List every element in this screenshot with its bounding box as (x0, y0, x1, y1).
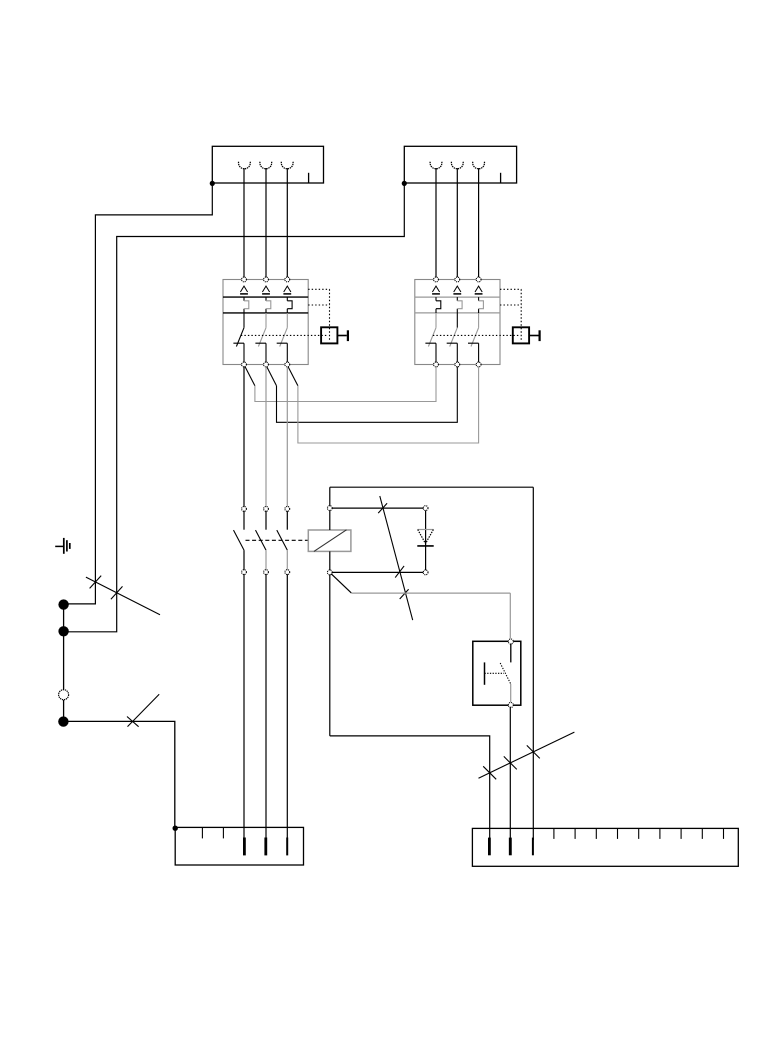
pushbutton S1 box (473, 641, 521, 705)
breaker Q2 thermal release pole 1 (432, 286, 440, 294)
switch S5 single-pole slash (127, 694, 159, 726)
wire motor phase 3 to strip X3 (286, 574, 288, 840)
switch S4 three-pole slash (479, 732, 575, 779)
breaker Q2 separator 1 (415, 296, 500, 298)
breaker Q2 terminals top (434, 277, 481, 282)
wire contact top (332, 507, 424, 509)
wire branch to pushbutton (331, 574, 510, 639)
node X3 corner dot (173, 826, 178, 831)
breaker Q1 magnetic release pole 1 (244, 297, 249, 313)
terminal strip X4 wire ends (489, 838, 533, 856)
wire crossover phase 1 (245, 367, 436, 402)
wire rail segment 2 (63, 700, 65, 722)
breaker Q2 body (415, 280, 500, 365)
control loop right wire to strip X4 (532, 487, 534, 840)
breaker Q1 contact pole 3 (277, 313, 288, 363)
node rail dot 3 (58, 716, 68, 726)
breaker Q1 thermal release pole 1 (240, 286, 248, 294)
breaker Q2 magnetic release pole 1 (436, 297, 441, 313)
breaker Q2 magnetic release pole 3 (479, 297, 484, 313)
breaker Q2 terminals bottom (434, 362, 481, 367)
node rail open terminal (59, 690, 69, 700)
contactor K1 linkage dashed (246, 539, 309, 541)
breaker Q1 operator (321, 327, 348, 343)
contactor K1 pole 1 (234, 507, 247, 575)
connector X2 socket contacts (430, 162, 484, 169)
breaker Q2 contact pole 2 (447, 313, 458, 363)
breaker Q2 trip linkage dotted (433, 289, 521, 341)
breaker Q1 separator 2 (223, 312, 308, 314)
wire N2 from X2 to left rail (65, 183, 405, 632)
terminal strip X3 (175, 827, 303, 865)
switch S0 two-pole slash (86, 576, 160, 615)
breaker Q2 separator 2 (415, 312, 500, 314)
breaker Q1 separator 1 (223, 296, 308, 298)
connector X1 box (212, 146, 323, 183)
contactor K1 pole 3 (277, 507, 290, 575)
node X1 junction dot (210, 181, 215, 186)
ground (55, 538, 70, 554)
wire crossover phase 2 (267, 367, 458, 423)
wire motor phase 1 to contactor (243, 367, 245, 507)
control loop top wire (330, 486, 534, 488)
terminal strip X3 wire ends (244, 838, 287, 856)
breaker Q2 magnetic release pole 2 (457, 297, 462, 313)
diode V1 (417, 511, 433, 571)
breaker Q2 contact pole 3 (468, 313, 479, 363)
node diode terminal bottom (423, 570, 428, 575)
connector X1 pin tick (308, 173, 310, 183)
wire rail to terminal strip X3 (63, 721, 174, 828)
wire contact bottom (332, 571, 424, 573)
breaker Q1 contact pole 1 (233, 313, 244, 363)
breaker Q1 contact pole 2 (255, 313, 266, 363)
wire X1 phase feeds to breaker Q1 (244, 168, 287, 277)
node rail dot 1 (58, 599, 68, 609)
breaker Q1 magnetic release pole 3 (287, 297, 292, 313)
breaker Q2 operator (513, 327, 540, 343)
pushbutton S1 terminal bottom (508, 703, 513, 708)
wire N1 from X1 to left rail (65, 183, 213, 604)
breaker Q1 magnetic release pole 2 (266, 297, 271, 313)
pushbutton S1 terminal top (508, 639, 513, 644)
breaker Q1 terminals bottom (242, 362, 290, 367)
wire motor phase 2 to contactor (265, 367, 267, 507)
switch S2 linkage slash (378, 496, 413, 620)
control loop left wire lower (329, 574, 331, 736)
breaker Q2 contact pole 1 (425, 313, 436, 363)
breaker Q1 body (223, 280, 308, 365)
breaker Q1 terminals top (242, 277, 290, 282)
wire crossover phase 3 (288, 367, 479, 444)
breaker Q1 thermal release pole 2 (262, 286, 270, 294)
wire motor phase 2 to strip X3 (265, 574, 267, 840)
node X2 junction dot (402, 181, 407, 186)
control loop bottom wire to strip X4 (330, 736, 490, 840)
wire motor phase 3 to contactor (286, 367, 288, 507)
contactor K1 pole 2 (256, 507, 269, 575)
wire motor phase 1 to strip X3 (243, 574, 245, 840)
control loop left wire upper (329, 487, 331, 570)
wire rail segment 1 (63, 605, 65, 690)
pushbutton S1 contact (485, 644, 511, 702)
coil K1 (308, 530, 351, 552)
node contact terminal top-left (327, 506, 332, 511)
node contact terminal bottom-left (327, 570, 332, 575)
connector X2 pin tick (500, 173, 502, 183)
breaker Q2 thermal release pole 2 (453, 286, 461, 294)
breaker Q1 trip linkage dotted (241, 289, 330, 341)
connector X1 socket contacts (239, 162, 294, 169)
breaker Q2 thermal release pole 3 (475, 286, 483, 294)
connector X2 box (404, 146, 516, 183)
terminal strip X4 (472, 828, 738, 866)
wire pushbutton to strip X4 (509, 707, 511, 840)
wire X2 phase feeds to breaker Q2 (436, 168, 479, 277)
node rail dot 2 (58, 626, 68, 636)
breaker Q1 thermal release pole 3 (283, 286, 291, 294)
node diode terminal top (423, 506, 428, 511)
